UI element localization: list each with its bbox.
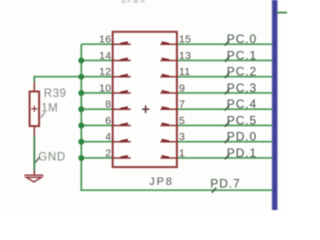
wire left pin2 row (81, 157, 112, 159)
wire left pin8 row (81, 108, 112, 110)
wire right pin11 row / net PC.2 (177, 76, 273, 78)
connector JP8 body (113, 32, 177, 167)
connector JP8 origin cross (142, 105, 149, 113)
svg-text:16: 16 (99, 34, 111, 46)
svg-text:5: 5 (179, 115, 185, 127)
svg-text:PC.1: PC.1 (227, 48, 257, 62)
wire left pin14 row (81, 59, 112, 61)
pin numbers left (99, 34, 111, 160)
svg-text:PD.1: PD.1 (227, 146, 257, 160)
connector JP8 pin end ticks right (162, 41, 170, 158)
svg-text:2: 2 (105, 147, 111, 159)
net label PD.1 (225, 146, 257, 160)
svg-text:14: 14 (99, 50, 111, 62)
connector JP8 pins left (16,14,12,10,8,6,4,2) (113, 44, 131, 158)
svg-text:7: 7 (179, 99, 185, 111)
svg-text:6: 6 (105, 115, 111, 127)
svg-text:1: 1 (179, 147, 185, 159)
net label PC.4 (225, 97, 257, 111)
net label PC.2 (225, 65, 257, 79)
pin numbers right (179, 34, 191, 160)
wire stub from bus to right edge (top) (277, 12, 287, 14)
svg-text:PC.5: PC.5 (227, 113, 257, 127)
junction dot row 14 (78, 57, 84, 63)
wire right pin9 row / net PC.3 (177, 92, 273, 94)
net label PC.5 (225, 113, 257, 127)
net label PD.0 (225, 130, 257, 144)
resistor R39 pin top (33, 82, 35, 92)
bus B1 (vertical blue bus at right edge) (271, 0, 278, 210)
label GND anchor tick (35, 157, 40, 162)
wire left pin4 row (81, 141, 112, 143)
wire left pin16 row (81, 43, 112, 45)
ground symbol (24, 175, 43, 182)
svg-text:4: 4 (105, 131, 111, 143)
label 1M anchor tick (41, 112, 45, 117)
wire right pin13 row / net PC.1 (177, 59, 273, 61)
wire right pin5 row / net PC.5 (177, 124, 273, 126)
wire right pin1 row / net PD.1 (177, 157, 273, 159)
connector JP8 pin end ticks left (120, 41, 128, 158)
net label PC.3 (225, 81, 257, 95)
wire resistor top net (34, 77, 81, 83)
svg-text:1M: 1M (41, 102, 58, 114)
connector JP8 pins right (15,13,11,9,7,5,3,1) (160, 44, 177, 158)
net label PC.0 (225, 32, 257, 46)
svg-text:10: 10 (99, 82, 111, 94)
cropped text remnant at top edge (122, 0, 145, 3)
svg-text:PC.4: PC.4 (227, 97, 257, 111)
svg-text:R39: R39 (44, 88, 67, 100)
wire resistor bottom net (33, 136, 35, 172)
junction dot row 6 (78, 122, 84, 128)
wire left pin12 row (81, 76, 112, 78)
wire vertical junction line + bottom PD.7 run (81, 44, 272, 190)
junction dot row 4 (78, 139, 84, 145)
svg-text:PC.0: PC.0 (227, 32, 257, 46)
svg-text:11: 11 (179, 66, 191, 78)
resistor R39 origin cross (31, 106, 37, 112)
resistor R39 body (30, 92, 39, 127)
svg-text:PC.3: PC.3 (227, 81, 257, 95)
svg-text:12: 12 (99, 66, 111, 78)
junction dot row 12 (78, 74, 84, 80)
wire right pin15 row / net PC.0 (177, 43, 273, 45)
wire right pin3 row / net PD.0 (177, 141, 273, 143)
junction dot row 8 (78, 106, 84, 112)
svg-text:PD.0: PD.0 (227, 130, 257, 144)
resistor R39 pin bottom (33, 126, 35, 136)
net label PC.1 (225, 48, 257, 62)
svg-text:JP8: JP8 (149, 176, 173, 188)
net label PD.7 (210, 176, 240, 193)
svg-text:15: 15 (179, 34, 191, 46)
svg-text:3: 3 (179, 131, 185, 143)
ground pin stub (33, 171, 35, 176)
wire right pin7 row / net PC.4 (177, 108, 273, 110)
svg-text:13: 13 (179, 50, 191, 62)
svg-text:8: 8 (105, 99, 111, 111)
wire left pin6 row (81, 124, 112, 126)
junction dot row 2 (78, 155, 84, 161)
junction dot row 10 (78, 90, 84, 96)
wire left pin10 row (81, 92, 112, 94)
svg-text:PC.2: PC.2 (227, 65, 257, 79)
svg-text:GND: GND (38, 151, 66, 163)
svg-text:9: 9 (179, 82, 185, 94)
